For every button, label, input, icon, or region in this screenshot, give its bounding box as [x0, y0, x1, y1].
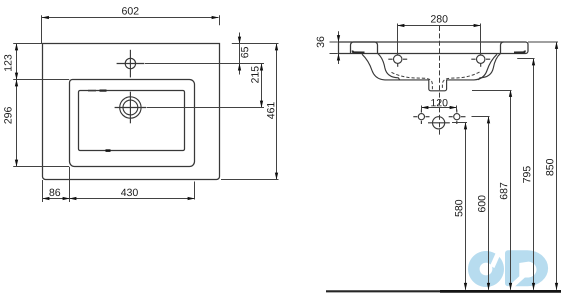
- rim bar outline: [339, 42, 529, 54]
- drain hole circles: [115, 92, 146, 124]
- label text 430: [121, 189, 138, 196]
- label text 86: [49, 189, 60, 196]
- label text 36: [317, 37, 324, 48]
- dimension 687: [472, 90, 512, 290]
- tap hole left (elevation): [388, 55, 407, 67]
- bowl outer left wall: [362, 54, 400, 80]
- watermark logo c glyph: [468, 250, 504, 287]
- dimension 280: [398, 24, 481, 56]
- bowl inner left wall: [378, 53, 400, 80]
- label text 850: [546, 159, 553, 176]
- basin bottom slope tick bottom: [106, 149, 111, 152]
- dimension 602 top: [42, 15, 220, 43]
- fixing hole left: [413, 110, 429, 125]
- drain outlet circle: [428, 117, 450, 129]
- dimension 123 left: [13, 44, 69, 80]
- label text 65: [241, 47, 248, 58]
- drain boss: [429, 80, 447, 91]
- label text 602: [122, 7, 138, 14]
- dimension 36: [330, 31, 339, 64]
- label text 580: [455, 200, 462, 217]
- label text 296: [4, 107, 11, 124]
- basin rim rounded rectangle: [70, 80, 195, 167]
- rim left thick mark: [353, 51, 365, 53]
- rim right box inner line: [501, 42, 504, 54]
- dimension 430 bottom: [70, 182, 195, 200]
- rim right thick mark: [514, 51, 525, 53]
- dimension 296 left: [13, 80, 69, 167]
- bowl outline: [362, 53, 501, 91]
- hidden bowl interior dashed left: [392, 72, 433, 89]
- rim left box inner lines: [351, 42, 378, 54]
- dimension 580: [452, 123, 467, 290]
- basin bottom slope tick top: [100, 89, 107, 91]
- dimension 461 right: [221, 44, 279, 180]
- label text 123: [4, 55, 11, 71]
- label text 600: [478, 195, 485, 212]
- dimension 120: [422, 106, 457, 112]
- dimension 600: [472, 117, 490, 290]
- dimension 215 right: [147, 64, 265, 108]
- hidden bowl interior dashed right: [442, 72, 479, 89]
- bowl inner right wall: [478, 53, 500, 80]
- label text 280: [431, 15, 448, 22]
- washbasin outer rectangle: [43, 44, 220, 180]
- centre line: [439, 26, 441, 135]
- label text 795: [523, 166, 530, 183]
- faucet hole circle: [117, 50, 145, 78]
- dimension 86 bottom: [43, 167, 70, 202]
- watermark logo D glyph: [505, 250, 548, 290]
- basin bottom inner rectangle: [79, 91, 185, 151]
- floor line: [326, 290, 440, 292]
- dimension 850: [528, 42, 558, 290]
- tap hole right (elevation): [471, 55, 490, 67]
- bowl underside shelf: [400, 79, 474, 81]
- label text 215: [251, 66, 258, 83]
- label text 120: [431, 99, 447, 106]
- label text 687: [500, 183, 507, 199]
- bowl outer right wall: [474, 54, 497, 80]
- label text 461: [267, 102, 274, 119]
- dimension 65 right: [145, 33, 264, 75]
- dimension 795: [517, 59, 534, 290]
- fixing hole right: [449, 110, 466, 125]
